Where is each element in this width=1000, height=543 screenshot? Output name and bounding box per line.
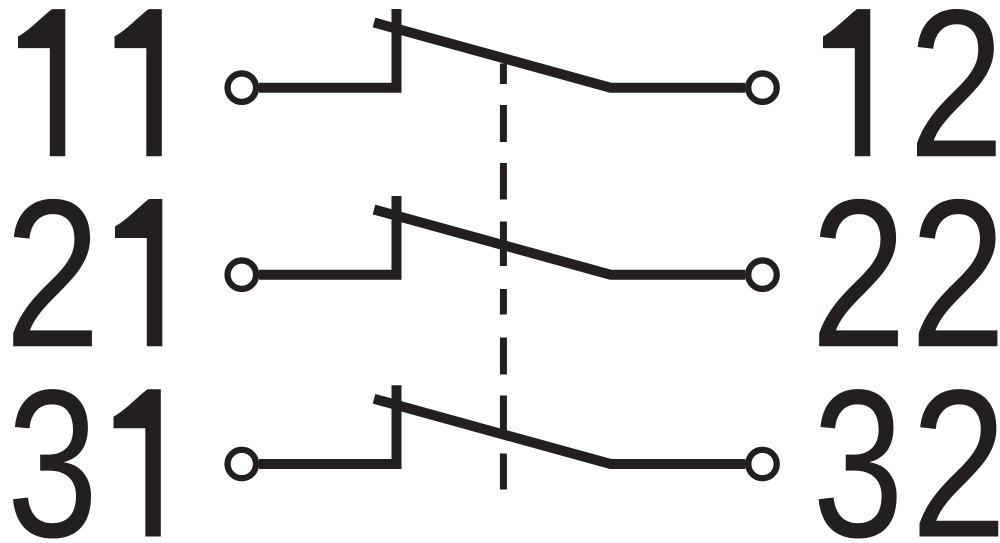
svg-text:3: 3 — [7, 347, 99, 543]
svg-text:2: 2 — [911, 345, 1000, 543]
svg-text:3: 3 — [812, 347, 904, 543]
